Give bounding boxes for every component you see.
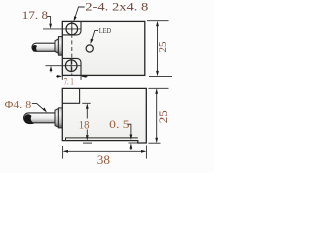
svg-text:7. 1: 7. 1	[64, 78, 74, 88]
svg-text:0. 5: 0. 5	[109, 117, 129, 131]
svg-text:17. 8: 17. 8	[22, 8, 48, 22]
svg-text:2-4. 2x4. 8: 2-4. 2x4. 8	[85, 1, 148, 13]
svg-text:25: 25	[158, 110, 170, 123]
svg-text:18: 18	[79, 117, 90, 131]
svg-text:25: 25	[158, 42, 169, 53]
svg-text:LED: LED	[99, 26, 112, 35]
svg-text:Φ4. 8: Φ4. 8	[5, 99, 32, 111]
svg-text:38: 38	[97, 153, 110, 167]
